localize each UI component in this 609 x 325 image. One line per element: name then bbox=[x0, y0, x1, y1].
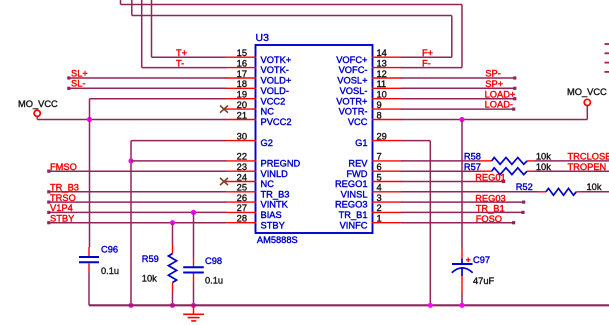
svg-text:T-: T- bbox=[176, 58, 184, 68]
svg-text:TR_B1: TR_B1 bbox=[476, 204, 505, 214]
junction dot C97 at bus bbox=[459, 303, 464, 308]
wire MO_VCC down to C96 bbox=[89, 120, 91, 248]
wire TRSO bbox=[47, 201, 226, 204]
pin 26 number bbox=[237, 193, 247, 203]
junction dot VCC/C97 bbox=[459, 117, 464, 122]
wire SL+ bbox=[67, 76, 226, 79]
net label TROPEN bbox=[568, 162, 607, 172]
resistor R58 bbox=[480, 158, 533, 165]
pin 7 number bbox=[377, 152, 382, 162]
svg-text:11: 11 bbox=[377, 79, 387, 89]
svg-text:VOFC+: VOFC+ bbox=[336, 55, 367, 65]
label C96 bbox=[101, 244, 118, 254]
svg-text:3: 3 bbox=[377, 193, 382, 203]
net label SL+ bbox=[71, 68, 88, 78]
wire VCC2 to pin 19 bbox=[90, 98, 227, 100]
pin 24 NC stub (left) bbox=[225, 181, 257, 183]
svg-text:LOAD+: LOAD+ bbox=[485, 89, 516, 99]
pin 16 number bbox=[237, 58, 247, 68]
svg-text:R52: R52 bbox=[516, 182, 533, 192]
pin 16 VOTK- stub (left) bbox=[225, 67, 257, 69]
no-connect X on pin 24 bbox=[220, 178, 228, 185]
svg-text:13: 13 bbox=[377, 58, 387, 68]
pin name VOLD- bbox=[261, 86, 289, 96]
svg-text:NC: NC bbox=[261, 107, 275, 117]
svg-text:1: 1 bbox=[377, 214, 382, 224]
pin name VCC2 bbox=[261, 96, 286, 106]
net label TRSO bbox=[50, 193, 76, 203]
svg-text:19: 19 bbox=[237, 90, 247, 100]
pin 9 VOTR- stub (right) bbox=[372, 108, 403, 110]
pin name TR_B3 bbox=[261, 189, 290, 199]
svg-text:U3: U3 bbox=[256, 32, 270, 44]
wire TR_B1 bbox=[401, 211, 525, 214]
svg-text:VOTK+: VOTK+ bbox=[261, 55, 292, 65]
pin name FWD bbox=[346, 169, 367, 179]
pin 11 VOSL- stub (right) bbox=[372, 87, 403, 89]
pin name VCC bbox=[348, 117, 368, 127]
net label TR_B1 bbox=[476, 204, 505, 214]
wire F- left vertical bbox=[120, 0, 122, 5]
resistor R59 bbox=[168, 244, 176, 293]
wire V1P4 down to C98 bbox=[193, 212, 195, 257]
wire TR_B3 bbox=[47, 190, 226, 193]
pin 5 REGO1 stub (right) bbox=[372, 181, 403, 183]
net label TRCLOSE bbox=[568, 152, 609, 162]
junction dot G2 at bus bbox=[128, 303, 133, 308]
svg-text:C98: C98 bbox=[205, 256, 222, 266]
pin name REV bbox=[348, 159, 368, 169]
svg-text:10: 10 bbox=[377, 90, 387, 100]
wire FMSO bbox=[47, 170, 226, 173]
no-connect X on pin 20 bbox=[220, 106, 228, 113]
ground bus wire bbox=[89, 304, 609, 306]
pin 12 VOSL+ stub (right) bbox=[372, 77, 403, 79]
svg-text:STBY: STBY bbox=[261, 220, 285, 230]
pin 29 G1 stub (right) bbox=[372, 140, 403, 142]
svg-text:PVCC2: PVCC2 bbox=[261, 117, 292, 127]
IC U3 body bbox=[256, 45, 373, 233]
pin 13 number bbox=[377, 58, 387, 68]
wire C98 to ground bus bbox=[193, 283, 195, 306]
svg-text:5: 5 bbox=[377, 172, 382, 182]
pin 21 PVCC2 stub (left) bbox=[225, 119, 257, 121]
wire R52 tail bbox=[581, 191, 609, 193]
pin 4 VINSL stub (right) bbox=[372, 191, 403, 193]
off-sheet connector pin stubs (right edge) bbox=[605, 44, 609, 72]
value 0.1u (C98) bbox=[205, 275, 223, 285]
svg-text:FWD: FWD bbox=[346, 169, 367, 179]
svg-text:2: 2 bbox=[377, 203, 382, 213]
svg-text:G1: G1 bbox=[355, 138, 367, 148]
pin 23 VINLD stub (left) bbox=[225, 170, 257, 172]
label MO_VCC (right) bbox=[567, 87, 607, 97]
svg-text:12: 12 bbox=[377, 69, 387, 79]
pin name VINFC bbox=[340, 220, 368, 230]
svg-text:REG03: REG03 bbox=[475, 193, 506, 203]
pin name REGO1 bbox=[335, 179, 368, 189]
junction dot G1 at bus bbox=[428, 303, 433, 308]
wire F+ left vertical bbox=[131, 0, 133, 16]
pin name VOSL- bbox=[340, 86, 368, 96]
pin name G2 bbox=[261, 138, 273, 148]
pin name VOSL+ bbox=[337, 76, 367, 86]
wire LOAD+ bbox=[401, 97, 516, 100]
net label SP- bbox=[485, 69, 501, 79]
svg-text:VOSL+: VOSL+ bbox=[337, 76, 367, 86]
pin 25 TR_B3 stub (left) bbox=[225, 191, 257, 193]
svg-text:29: 29 bbox=[377, 131, 387, 141]
svg-text:30: 30 bbox=[237, 131, 247, 141]
svg-text:47uF: 47uF bbox=[473, 276, 495, 286]
wire pin 7 to R58 bbox=[401, 160, 480, 162]
wire T- vertical bbox=[141, 0, 143, 68]
wire VCC row pin 8 bbox=[401, 119, 587, 121]
svg-text:20: 20 bbox=[237, 100, 247, 110]
pin name TR_B1 bbox=[339, 210, 368, 220]
svg-text:4: 4 bbox=[377, 183, 382, 193]
svg-text:0.1u: 0.1u bbox=[205, 275, 223, 285]
svg-text:TRCLOSE: TRCLOSE bbox=[568, 152, 609, 162]
svg-text:TR_B3: TR_B3 bbox=[50, 183, 79, 193]
svg-text:G2: G2 bbox=[261, 138, 273, 148]
svg-text:STBY: STBY bbox=[50, 214, 74, 224]
pin name STBY bbox=[261, 220, 285, 230]
svg-text:VOFC-: VOFC- bbox=[339, 65, 368, 75]
pin 14 VOFC+ stub (right) bbox=[372, 56, 403, 58]
pin 26 VINTK stub (left) bbox=[225, 201, 257, 203]
wire T+ horizontal bbox=[152, 56, 227, 58]
svg-text:SL-: SL- bbox=[71, 79, 85, 89]
svg-text:10k: 10k bbox=[142, 274, 157, 284]
svg-text:REGO1: REGO1 bbox=[335, 179, 368, 189]
label R52 bbox=[516, 182, 533, 192]
svg-text:FMSO: FMSO bbox=[50, 162, 77, 172]
pin name PREGND bbox=[261, 159, 301, 169]
svg-text:14: 14 bbox=[377, 48, 387, 58]
svg-text:MO_VCC: MO_VCC bbox=[567, 87, 607, 97]
wire LOAD- bbox=[401, 108, 515, 111]
svg-text:9: 9 bbox=[377, 100, 382, 110]
pin name VOTR+ bbox=[336, 96, 367, 106]
pin 1 VINFC stub (right) bbox=[372, 222, 403, 224]
wire C97 to ground bus bbox=[461, 294, 463, 305]
svg-text:23: 23 bbox=[237, 162, 247, 172]
svg-text:R58: R58 bbox=[464, 152, 481, 162]
pin 2 TR_B1 stub (right) bbox=[372, 211, 403, 213]
svg-text:FOSO: FOSO bbox=[476, 214, 502, 224]
wire F- to pin 13 bbox=[401, 67, 462, 69]
wire MO_VCC right stem bbox=[586, 106, 588, 120]
svg-text:BIAS: BIAS bbox=[261, 210, 282, 220]
svg-text:VINTK: VINTK bbox=[261, 200, 289, 210]
pin 17 VOLD+ stub (left) bbox=[225, 77, 257, 79]
pin 24 number bbox=[237, 172, 247, 182]
svg-text:27: 27 bbox=[237, 203, 247, 213]
svg-text:TRSO: TRSO bbox=[50, 193, 76, 203]
svg-text:10k: 10k bbox=[587, 182, 602, 192]
net label SL- bbox=[71, 79, 85, 89]
wire REG01 bbox=[401, 180, 505, 183]
svg-text:VOSL-: VOSL- bbox=[340, 86, 368, 96]
svg-text:7: 7 bbox=[377, 152, 382, 162]
pin name VINTK bbox=[261, 200, 289, 210]
svg-text:VOTK-: VOTK- bbox=[261, 65, 289, 75]
wire G1 from pin 29 bbox=[401, 140, 430, 142]
svg-text:REGO3: REGO3 bbox=[335, 200, 368, 210]
ground symbol bbox=[183, 305, 204, 321]
wire R57 to TROPEN bbox=[533, 170, 609, 172]
label R57 bbox=[464, 162, 481, 172]
pin 8 VCC stub (right) bbox=[372, 119, 403, 121]
wire F+ top horizontal bbox=[132, 15, 452, 17]
net label TR_B3 bbox=[50, 183, 79, 193]
wire C96 to ground bus bbox=[88, 273, 90, 306]
pin 14 number bbox=[377, 48, 387, 58]
svg-text:VINSL: VINSL bbox=[341, 189, 368, 199]
pin 10 VOTR+ stub (right) bbox=[372, 98, 403, 100]
wire SL- bbox=[67, 87, 226, 90]
wire pin 4 to R52 bbox=[401, 191, 538, 193]
pin 15 number bbox=[237, 48, 247, 58]
pin 5 number bbox=[377, 172, 382, 182]
pin name VOFC+ bbox=[336, 55, 367, 65]
wire G2 vertical to ground bus bbox=[130, 141, 132, 306]
pin 19 number bbox=[237, 90, 247, 100]
wire G1 vertical to ground bus bbox=[429, 141, 431, 306]
svg-text:R57: R57 bbox=[464, 162, 481, 172]
wire VCC2 vertical branch bbox=[89, 99, 91, 120]
svg-text:17: 17 bbox=[237, 69, 247, 79]
pin 11 number bbox=[377, 79, 387, 89]
wire MO_VCC to pin 21 bbox=[37, 119, 226, 121]
value 10k (R59) bbox=[142, 274, 157, 284]
svg-text:15: 15 bbox=[237, 48, 247, 58]
pin 7 REV stub (right) bbox=[372, 160, 403, 162]
pin 3 REGO3 stub (right) bbox=[372, 201, 403, 203]
net label FOSO bbox=[476, 214, 502, 224]
label R59 bbox=[142, 254, 159, 264]
resistor R57 bbox=[480, 168, 533, 175]
label C97 bbox=[473, 255, 490, 265]
svg-text:10k: 10k bbox=[536, 162, 551, 172]
pin 10 number bbox=[377, 90, 387, 100]
svg-text:8: 8 bbox=[377, 110, 382, 120]
IC U3 refdes label bbox=[256, 32, 270, 44]
svg-text:LOAD-: LOAD- bbox=[485, 100, 513, 110]
svg-text:NC: NC bbox=[261, 179, 275, 189]
svg-text:26: 26 bbox=[237, 193, 247, 203]
pin 17 number bbox=[237, 69, 247, 79]
value 10k (R57) bbox=[536, 162, 551, 172]
polarity + mark (C97) bbox=[466, 258, 471, 263]
wire pin 6 to R57 bbox=[401, 170, 480, 172]
net label REG01 bbox=[475, 173, 506, 183]
svg-text:VINFC: VINFC bbox=[340, 220, 368, 230]
pin name PVCC2 bbox=[261, 117, 292, 127]
pin 28 STBY stub (left) bbox=[225, 222, 257, 224]
label R58 bbox=[464, 152, 481, 162]
svg-text:F-: F- bbox=[422, 58, 431, 68]
junction dot VCC branch bbox=[87, 117, 92, 122]
pin 25 number bbox=[237, 183, 247, 193]
wire STBY bbox=[47, 221, 226, 224]
pin 29 number bbox=[377, 131, 387, 141]
pin 2 number bbox=[377, 203, 382, 213]
junction dot C98 at bus bbox=[191, 303, 196, 308]
pin 6 number bbox=[377, 162, 382, 172]
junction dot STBY/R59 bbox=[170, 220, 175, 225]
svg-text:VOLD+: VOLD+ bbox=[261, 76, 292, 86]
pin 19 VCC2 stub (left) bbox=[225, 98, 257, 100]
pin 18 number bbox=[237, 79, 247, 89]
pin name VINSL bbox=[341, 189, 368, 199]
svg-text:TROPEN: TROPEN bbox=[568, 162, 607, 172]
svg-text:VOTR+: VOTR+ bbox=[336, 96, 367, 106]
capacitor C98 bbox=[183, 258, 204, 283]
pin name VOTR- bbox=[339, 107, 368, 117]
svg-text:21: 21 bbox=[237, 110, 247, 120]
pin name G1 bbox=[355, 138, 367, 148]
svg-text:VOLD-: VOLD- bbox=[261, 86, 289, 96]
svg-text:AM5888S: AM5888S bbox=[257, 235, 298, 245]
net label V1P4 bbox=[50, 203, 73, 213]
pin 4 number bbox=[377, 183, 382, 193]
net label STBY bbox=[50, 214, 74, 224]
svg-text:SP+: SP+ bbox=[485, 79, 503, 89]
pin name NC bbox=[261, 107, 275, 117]
svg-text:C96: C96 bbox=[101, 244, 118, 254]
pin name REGO3 bbox=[335, 200, 368, 210]
wire SP- bbox=[401, 76, 516, 79]
junction dot G2/PREGND bbox=[128, 158, 133, 163]
svg-text:PREGND: PREGND bbox=[261, 159, 301, 169]
pin 20 NC stub (left) bbox=[225, 108, 257, 110]
IC U3 part number AM5888S bbox=[257, 235, 298, 245]
pin 30 G2 stub (left) bbox=[225, 140, 257, 142]
pin name BIAS bbox=[261, 210, 282, 220]
value 0.1u (C96) bbox=[101, 266, 119, 276]
net label FMSO bbox=[50, 162, 77, 172]
svg-text:R59: R59 bbox=[142, 254, 159, 264]
svg-text:6: 6 bbox=[377, 162, 382, 172]
svg-text:TR_B1: TR_B1 bbox=[339, 210, 368, 220]
wire REG03 bbox=[401, 201, 525, 204]
pin 9 number bbox=[377, 100, 382, 110]
svg-text:VINLD: VINLD bbox=[261, 169, 289, 179]
pin 20 number bbox=[237, 100, 247, 110]
pin 23 number bbox=[237, 162, 247, 172]
pin 18 VOLD- stub (left) bbox=[225, 87, 257, 89]
svg-text:T+: T+ bbox=[176, 48, 187, 58]
pin name VINLD bbox=[261, 169, 289, 179]
wire F- top horizontal bbox=[121, 4, 463, 6]
wire R58 to TRCLOSE bbox=[533, 160, 609, 162]
svg-text:22: 22 bbox=[237, 152, 247, 162]
wire PREGND to pin 22 bbox=[131, 160, 226, 162]
svg-text:REV: REV bbox=[348, 159, 368, 169]
svg-text:V1P4: V1P4 bbox=[50, 203, 73, 213]
value 47uF (C97) bbox=[473, 276, 495, 286]
svg-text:16: 16 bbox=[237, 58, 247, 68]
resistor R52 bbox=[538, 188, 581, 195]
net label T+ bbox=[176, 48, 187, 58]
net label F+ bbox=[422, 48, 433, 58]
pin 27 BIAS stub (left) bbox=[225, 211, 257, 213]
junction dot R59 at bus bbox=[170, 303, 175, 308]
pin 30 number bbox=[237, 131, 247, 141]
net label LOAD- bbox=[485, 100, 513, 110]
label MO_VCC (left) bbox=[18, 99, 58, 109]
wire VCC down to C97 bbox=[461, 120, 463, 250]
value 10k (R58) bbox=[536, 152, 551, 162]
pin name VOTK- bbox=[261, 65, 289, 75]
pin 27 number bbox=[237, 203, 247, 213]
label C98 bbox=[205, 256, 222, 266]
svg-text:VOTR-: VOTR- bbox=[339, 107, 368, 117]
pin 21 number bbox=[237, 110, 247, 120]
wire F- right vertical bbox=[461, 5, 463, 68]
wire FOSO bbox=[401, 221, 515, 224]
svg-text:VCC2: VCC2 bbox=[261, 96, 286, 106]
capacitor C97 (polarized) bbox=[452, 249, 473, 294]
svg-text:25: 25 bbox=[237, 183, 247, 193]
svg-text:18: 18 bbox=[237, 79, 247, 89]
svg-text:C97: C97 bbox=[473, 255, 490, 265]
wire F+ to pin 14 bbox=[401, 56, 452, 58]
pin 15 VOTK+ stub (left) bbox=[225, 56, 257, 58]
svg-text:TR_B3: TR_B3 bbox=[261, 189, 290, 199]
wire T+ vertical bbox=[151, 0, 153, 57]
wire T- horizontal bbox=[142, 67, 226, 69]
pin 22 number bbox=[237, 152, 247, 162]
net label REG03 bbox=[475, 193, 506, 203]
wire F+ right vertical bbox=[451, 16, 453, 58]
pin name VOLD+ bbox=[261, 76, 292, 86]
wire G2 to pin 30 bbox=[131, 140, 226, 142]
svg-text:10k: 10k bbox=[536, 152, 551, 162]
net label SP+ bbox=[485, 79, 503, 89]
svg-text:F+: F+ bbox=[422, 48, 433, 58]
pin name VOTK+ bbox=[261, 55, 292, 65]
pin name VOFC- bbox=[339, 65, 368, 75]
pin 1 number bbox=[377, 214, 382, 224]
net label F- bbox=[422, 58, 431, 68]
svg-text:REG01: REG01 bbox=[475, 173, 506, 183]
svg-text:28: 28 bbox=[237, 214, 247, 224]
pin 12 number bbox=[377, 69, 387, 79]
pin 6 FWD stub (right) bbox=[372, 170, 403, 172]
wire V1P4 bbox=[47, 211, 226, 214]
junction dot V1P4/C98 bbox=[191, 210, 196, 215]
net label T- bbox=[176, 58, 184, 68]
power symbol MO_VCC (right) bbox=[584, 99, 590, 105]
pin 28 number bbox=[237, 214, 247, 224]
svg-text:24: 24 bbox=[237, 172, 247, 182]
svg-text:SP-: SP- bbox=[485, 69, 501, 79]
wire SP+ bbox=[401, 87, 516, 90]
svg-text:SL+: SL+ bbox=[71, 68, 88, 78]
pin 13 VOFC- stub (right) bbox=[372, 67, 403, 69]
power symbol MO_VCC (left) bbox=[34, 110, 40, 119]
capacitor C96 bbox=[79, 247, 99, 273]
wire R59 to ground bus bbox=[172, 293, 174, 306]
value 10k (R52) bbox=[587, 182, 602, 192]
wire STBY down to R59 bbox=[172, 223, 174, 244]
pin 8 number bbox=[377, 110, 382, 120]
pin 3 number bbox=[377, 193, 382, 203]
pin 22 PREGND stub (left) bbox=[225, 160, 257, 162]
